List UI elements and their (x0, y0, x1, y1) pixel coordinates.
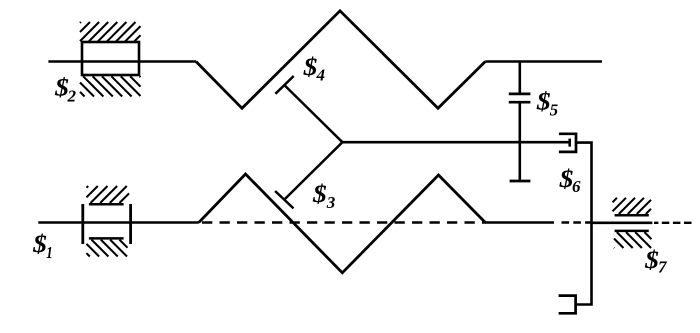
screw $5 end bar (510, 180, 531, 183)
bearing $7 top hatch (613, 198, 652, 214)
screw $5 upper stem (518, 62, 521, 93)
contact tick $4 (275, 76, 293, 94)
svg-text:7: 7 (658, 258, 668, 277)
svg-text:5: 5 (550, 100, 559, 119)
bearing $1 top pad (89, 203, 124, 206)
bearing $2 bottom hatch (80, 76, 141, 96)
line of action $4 (284, 85, 342, 142)
bottom shaft segment right of gears (485, 221, 554, 224)
screw $5 lower stem (518, 103, 521, 181)
connecting rod from bracket $6 down to frame bracket (576, 143, 592, 305)
output shaft stub through bearing $7 (592, 222, 653, 225)
bearing $1 top hatch (87, 186, 130, 203)
slider bracket $6 (559, 134, 576, 152)
bearing $7 bottom pad (615, 230, 649, 233)
frame bracket (bottom) (559, 296, 576, 314)
contact tick $3 (275, 191, 293, 208)
dashed axis under bottom gears (202, 221, 486, 223)
bearing $7 top pad (615, 214, 649, 217)
svg-text:$: $ (644, 246, 659, 274)
svg-text:$: $ (312, 180, 327, 208)
svg-text:1: 1 (46, 244, 53, 263)
line of action $3 (284, 142, 342, 199)
bearing $1 left bar (81, 204, 84, 244)
top shaft left segment (input shaft 2) (48, 60, 196, 63)
top shaft right segment (485, 60, 602, 63)
screw $5 upper plate (509, 93, 531, 96)
dashed axis right end (654, 222, 692, 224)
svg-text:$: $ (303, 53, 318, 81)
top gear zigzag on shaft 2 (196, 11, 485, 109)
svg-text:3: 3 (326, 193, 336, 212)
bearing $1 bottom pad (89, 237, 124, 240)
screw $5 lower plate (509, 101, 531, 104)
svg-text:$: $ (32, 230, 47, 258)
bearing $2 top hatch (80, 22, 141, 42)
dashed axis segment to frame link (562, 221, 592, 223)
svg-text:$: $ (536, 87, 551, 115)
middle link end tick (568, 139, 571, 147)
svg-text:6: 6 (572, 177, 581, 196)
bearing housing rect at $2 (82, 42, 139, 75)
svg-text:2: 2 (67, 87, 77, 106)
bearing $1 right bar (129, 204, 132, 244)
bearing $7 bottom hatch (614, 232, 652, 248)
bearing $1 bottom hatch (87, 240, 128, 257)
svg-text:4: 4 (316, 66, 326, 85)
bottom gear zigzag on shaft 1 (199, 174, 486, 273)
bottom shaft left segment (input shaft 1) (38, 221, 199, 224)
middle link shaft (342, 141, 569, 144)
